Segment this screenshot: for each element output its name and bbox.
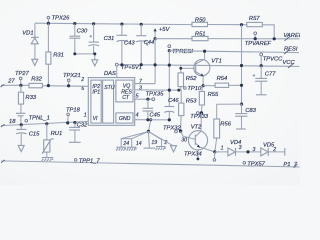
test point TP10: [184, 86, 202, 92]
capacitor C44: [136, 23, 154, 65]
svg-text:TPX33: TPX33: [190, 114, 208, 120]
svg-text:C30: C30: [77, 29, 88, 35]
node rail1/R31: [47, 22, 50, 25]
ground hatch 14: [127, 147, 137, 151]
resistor R31: [46, 23, 64, 85]
test point TPRESI: [168, 45, 194, 55]
svg-text:C45: C45: [149, 112, 160, 118]
svg-text:DAS: DAS: [104, 71, 116, 77]
resistor R51: [192, 31, 208, 40]
test point TPX21: [63, 73, 81, 87]
ground hatch 2: [156, 147, 166, 151]
svg-text:R55: R55: [208, 92, 219, 98]
wire: input 27 line: [1, 85, 88, 86]
wire: bottom-left rail: [1, 121, 88, 125]
test point TP27: [15, 71, 30, 87]
svg-text:C44: C44: [144, 40, 155, 46]
svg-text:C15: C15: [29, 131, 40, 137]
ground bar under C83: [236, 128, 246, 130]
svg-text:2: 2: [80, 77, 84, 83]
svg-text:TP27: TP27: [15, 71, 30, 77]
wire: rail2 to R51: [155, 38, 192, 40]
svg-text:R50: R50: [195, 18, 206, 24]
wire: chip supply stub: [116, 66, 118, 78]
svg-text:C83: C83: [245, 108, 256, 114]
svg-text:TP+5V1: TP+5V1: [121, 65, 142, 71]
resistor R54: [203, 76, 241, 87]
test point TPX57: [243, 161, 266, 167]
wire: pin7 to +5V: [135, 83, 155, 85]
wire: vertical bus x241.5: [241, 25, 243, 105]
ground arrow under VD1: [32, 59, 38, 65]
svg-text:TPP1_7: TPP1_7: [79, 158, 101, 164]
test point TP18: [66, 107, 81, 124]
node VT2 emitter out: [213, 150, 216, 153]
svg-text:18: 18: [9, 119, 16, 125]
wire: diode line: [215, 151, 285, 153]
svg-text:30: 30: [181, 138, 187, 144]
node ground fan: [147, 130, 150, 133]
node VCC vertical: [240, 64, 243, 67]
wire: fan to pin 19 ground: [148, 132, 149, 148]
capacitor series plates: [16, 113, 25, 116]
wire: top +5V rail1: [35, 23, 192, 24]
capacitor C32: [69, 121, 88, 142]
svg-text:RESI: RESI: [284, 47, 298, 53]
ground bar under C77: [256, 94, 267, 96]
svg-text:TPX32: TPX32: [163, 126, 181, 132]
test point TP+5V1: [115, 63, 142, 71]
svg-text:TPVCC: TPVCC: [263, 56, 283, 62]
capacitor C15: [16, 125, 40, 145]
wire: VCC rail: [118, 65, 299, 67]
resistor R57: [247, 16, 274, 39]
slash VAREF exit: [285, 36, 291, 41]
node TPRESI rail: [168, 64, 171, 67]
node VT1 collector / RES1: [203, 50, 206, 53]
ground arrow fan: [171, 146, 177, 152]
wire: fan to arrow ground: [148, 132, 173, 146]
wire: base line VT2: [181, 131, 196, 139]
svg-text:TPNL_1: TPNL_1: [29, 115, 50, 121]
svg-text:TPX21: TPX21: [63, 73, 81, 79]
chip DAS: [88, 71, 134, 125]
test point TPX34: [184, 149, 216, 161]
node R54 right: [240, 84, 243, 87]
svg-text:+5V: +5V: [159, 27, 171, 33]
wire: +5V vertical to TP+5V1 rail: [135, 39, 155, 84]
svg-text:VI: VI: [93, 116, 98, 122]
capacitor C30: [69, 22, 88, 54]
svg-text:1: 1: [221, 146, 224, 152]
node +5V: [154, 37, 157, 40]
diode VD1: [22, 23, 38, 60]
node C43 rail: [120, 63, 123, 66]
resistor R32: [29, 76, 43, 87]
svg-text:TPVAREF: TPVAREF: [245, 41, 272, 47]
wire: fan to pin 24 ground: [121, 132, 148, 147]
wire: pin4 line: [135, 119, 170, 121]
node base: [179, 67, 182, 70]
svg-text:RU1: RU1: [51, 131, 63, 137]
svg-text:R31: R31: [53, 52, 64, 58]
svg-text:R54: R54: [217, 76, 228, 82]
svg-text:VD1: VD1: [22, 31, 33, 37]
resistor R55: [199, 86, 219, 113]
ground arrow under C15: [18, 145, 24, 151]
power +5V arrow: [154, 27, 171, 39]
capacitor C43: [117, 23, 136, 65]
test point TPX32: [163, 126, 182, 133]
slash bottom left entry: [1, 160, 5, 163]
test point TPVAREF: [245, 32, 272, 47]
svg-text:R53: R53: [186, 98, 197, 104]
svg-text:VT1: VT1: [211, 58, 222, 64]
node C15: [20, 123, 23, 126]
test point TPX35: [146, 91, 164, 100]
wire: R56 top line: [216, 103, 241, 105]
svg-text:VCC: VCC: [282, 60, 295, 66]
slash RESI exit: [284, 50, 290, 54]
svg-text:6: 6: [81, 86, 84, 92]
svg-text:STU: STU: [104, 85, 115, 91]
diode VD4: [228, 140, 242, 156]
resistor R52: [178, 65, 197, 90]
capacitor C77: [253, 64, 276, 95]
connector end bar: [284, 148, 286, 156]
svg-text:TPX34: TPX34: [184, 151, 202, 157]
svg-text:1: 1: [84, 113, 87, 119]
node R57/VAREF: [273, 37, 276, 40]
svg-text:R56: R56: [220, 121, 231, 127]
resistor R33: [18, 85, 36, 125]
ground arrow under C31: [92, 60, 98, 66]
svg-text:C31: C31: [104, 36, 115, 42]
resistor R53: [179, 90, 198, 131]
node diode junction: [246, 150, 249, 153]
wire: pin5 line: [135, 98, 152, 100]
transistor VT1: [181, 51, 222, 85]
svg-text:2: 2: [272, 147, 276, 153]
svg-text:14: 14: [136, 141, 142, 147]
svg-text:C77: C77: [265, 72, 276, 78]
transistor VT2: [181, 124, 215, 152]
node C44 rail: [140, 63, 143, 66]
wire: fan to pin 2 ground: [148, 132, 161, 147]
svg-text:CT: CT: [122, 95, 130, 101]
slash VCC exit: [288, 63, 294, 68]
svg-text:R57: R57: [249, 16, 260, 22]
svg-text:TPX26: TPX26: [52, 16, 70, 22]
ground bar under C32: [69, 141, 81, 143]
slash left entry 18: [1, 124, 5, 127]
svg-text:R51: R51: [195, 31, 206, 37]
svg-text:24: 24: [122, 141, 129, 147]
slash left entry 27: [1, 84, 5, 87]
capacitor C45: [143, 99, 161, 120]
ground hatch 24: [116, 147, 126, 151]
test point TPX33: [190, 111, 208, 120]
svg-text:VAREF: VAREF: [283, 33, 300, 39]
node VT1 emitter: [202, 84, 205, 87]
svg-text:TP18: TP18: [66, 107, 81, 113]
ground bar 19: [144, 147, 156, 149]
svg-text:TPRESI: TPRESI: [172, 49, 193, 55]
wire: ground fan riser: [148, 120, 150, 132]
svg-text:R33: R33: [25, 95, 36, 101]
wire: pin3 line: [135, 89, 181, 91]
svg-text:4: 4: [136, 113, 139, 119]
test point TPX26: [47, 16, 70, 24]
ground hatch under RU1: [42, 158, 54, 162]
capacitor C46: [164, 98, 179, 113]
capacitor C83: [235, 103, 257, 129]
svg-text:C46: C46: [168, 98, 179, 104]
wire: VAREF line: [208, 38, 300, 40]
resistor R56: [214, 104, 232, 152]
svg-text:R52: R52: [186, 76, 197, 82]
diode VD5: [253, 143, 277, 156]
wire: R55 to VT2 collector: [200, 113, 202, 131]
slash bottom right exit: [294, 164, 298, 168]
svg-text:VT2: VT2: [191, 124, 202, 130]
test point TPNL_1: [25, 115, 50, 122]
svg-text:TPX35: TPX35: [146, 91, 164, 97]
svg-text:GND: GND: [119, 116, 131, 122]
svg-text:3: 3: [239, 145, 242, 151]
resistor R50: [192, 18, 247, 27]
wire: TPRESI vertical chain: [168, 51, 170, 120]
wire: C30/C31 common: [75, 54, 95, 60]
test point TPVCC: [260, 53, 283, 66]
node RU1: [45, 122, 48, 125]
svg-text:27: 27: [7, 79, 15, 85]
svg-text:3: 3: [253, 147, 256, 153]
node R50/R57: [240, 23, 243, 26]
wire: RES1 line: [169, 51, 299, 53]
node R31 joins: [47, 84, 50, 87]
svg-text:IP1: IP1: [92, 89, 100, 95]
svg-text:R32: R32: [31, 76, 42, 82]
svg-text:C43: C43: [124, 40, 135, 46]
wire: fan to pin 14 ground: [121, 132, 148, 147]
svg-text:C32: C32: [77, 122, 88, 128]
wire: long bottom line: [1, 161, 299, 167]
varistor RU1: [42, 124, 62, 158]
node +5V rail: [154, 63, 157, 66]
svg-text:19: 19: [151, 140, 157, 146]
svg-text:3: 3: [139, 85, 142, 91]
capacitor C31: [88, 22, 114, 54]
test point TPP1_7: [74, 158, 100, 164]
